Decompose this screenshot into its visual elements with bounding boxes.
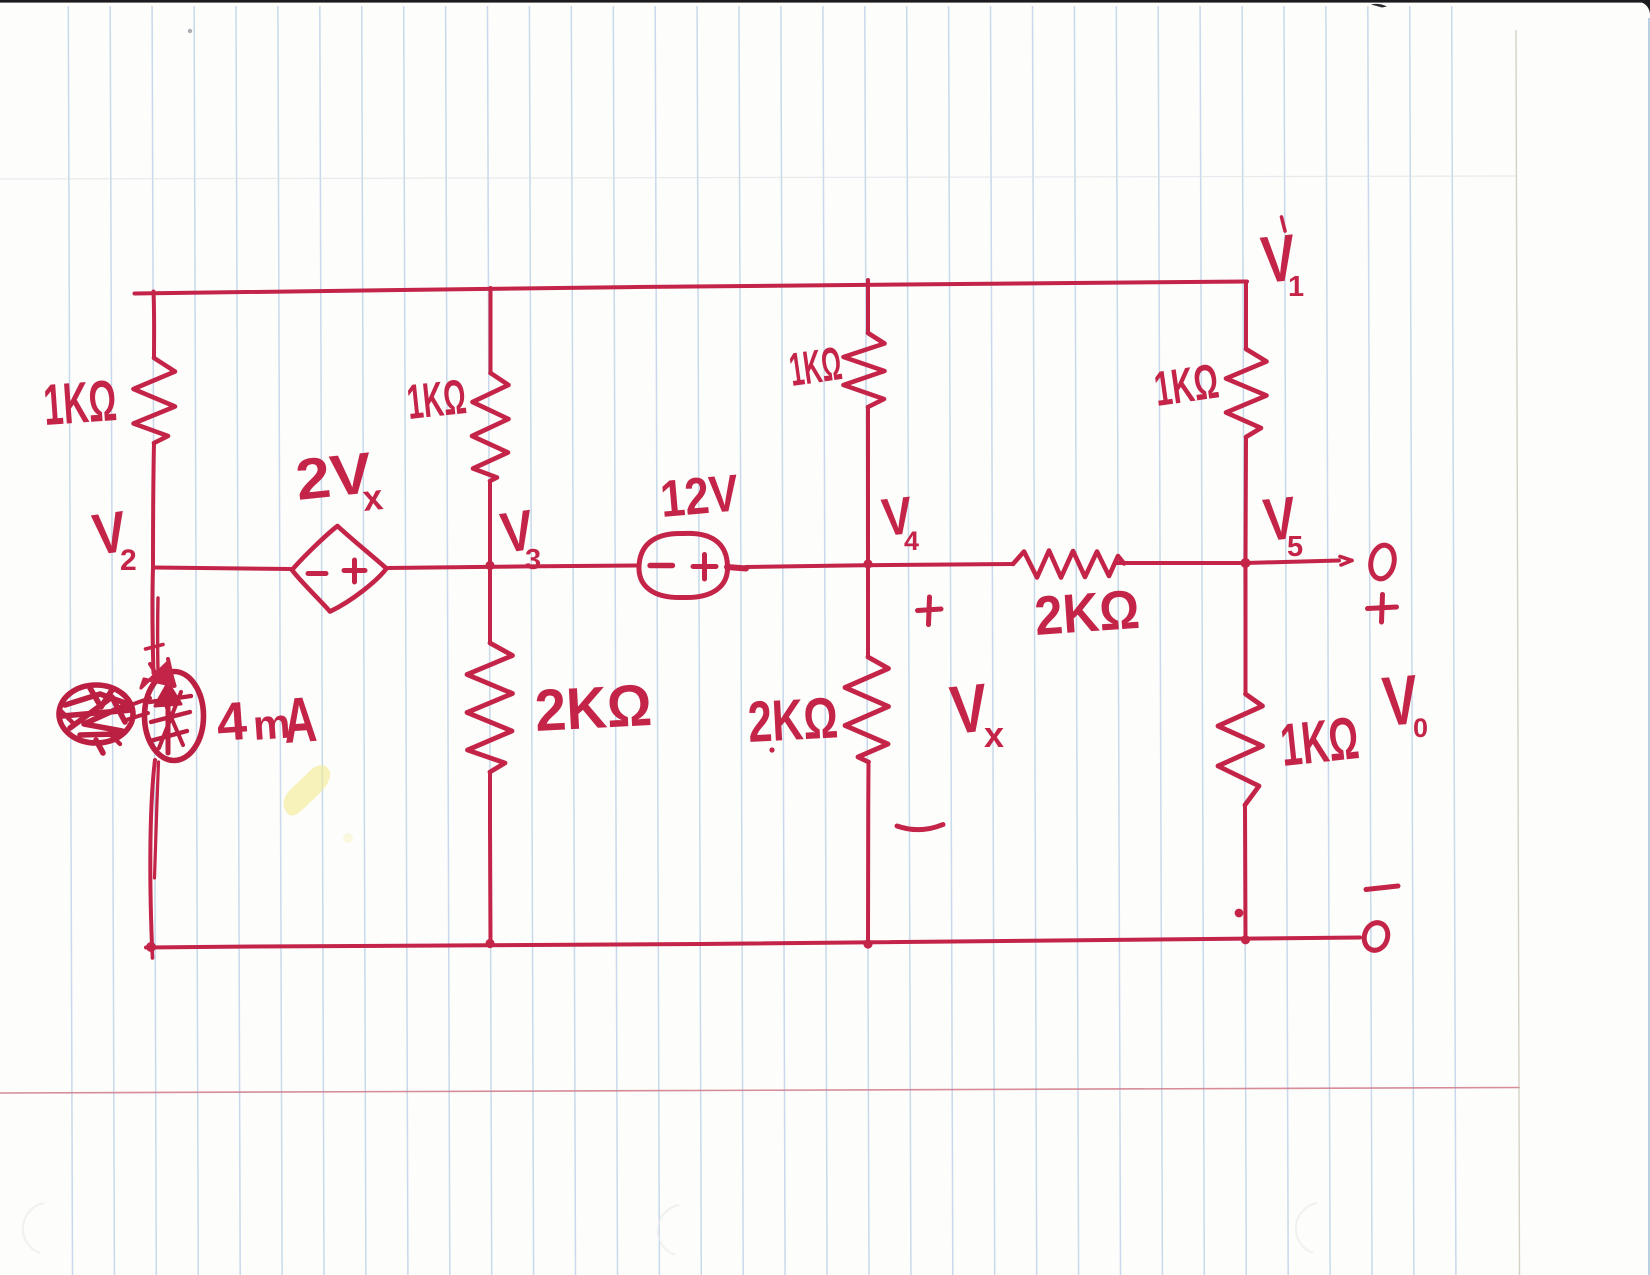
wire E1 to node V3 to source VS bbox=[387, 566, 639, 569]
pink margin line near bottom bbox=[0, 1088, 1520, 1094]
top scan edge bbox=[0, 0, 1650, 3]
wire R2 through node V3 to R3 bbox=[488, 481, 492, 643]
wire VS through node V4 to R8 bbox=[746, 564, 1013, 567]
resistor R6 1kΩ (V5 branch upper) bbox=[1226, 349, 1267, 437]
junction V4 branch at bottom rail bbox=[865, 941, 870, 946]
black pen tick top bbox=[1371, 4, 1387, 8]
wire top rail to R6 (node V5 branch) bbox=[1244, 282, 1248, 350]
resistor R1 1kΩ (left branch) bbox=[134, 358, 176, 443]
scratched-out symbol (crossed-out source attempt) bbox=[59, 685, 150, 753]
minus polarity mark of Vx (below R5) bbox=[897, 825, 943, 830]
wire top rail to R2 (node V3 branch) bbox=[489, 288, 493, 373]
resistor R5 2kΩ (V4 branch lower, Vx across it) bbox=[845, 657, 889, 762]
wire left branch upper (top rail to R1) bbox=[152, 292, 157, 359]
svg-text:2: 2 bbox=[120, 544, 137, 577]
svg-text:1KΩ: 1KΩ bbox=[786, 336, 845, 396]
junction node V3 on middle wire bbox=[487, 563, 492, 568]
wire R1 to node V2 bbox=[153, 443, 154, 567]
output terminal (bottom, open circle) bbox=[1361, 920, 1392, 954]
scanner right edge strip bbox=[1648, 18, 1650, 1275]
wire R8 to node V5 bbox=[1116, 561, 1246, 565]
plus polarity mark inside VS bbox=[693, 555, 716, 580]
stray ink dot near V5 bottom bbox=[1237, 911, 1242, 916]
svg-text:0: 0 bbox=[1413, 713, 1428, 743]
junction V3 branch at bottom rail bbox=[487, 941, 492, 946]
resistor R3 2kΩ (V3 branch lower) bbox=[467, 643, 513, 772]
svg-text:x: x bbox=[361, 476, 385, 519]
wire bottom rail (ground net) bbox=[146, 938, 1360, 948]
wire node V5 to output terminal bbox=[1246, 561, 1340, 564]
svg-text:1KΩ: 1KΩ bbox=[41, 368, 118, 438]
wire node V5 to R7 bbox=[1244, 563, 1248, 694]
svg-text:12V: 12V bbox=[658, 464, 741, 529]
svg-text:x: x bbox=[984, 714, 1004, 755]
wire top rail (node V1 net) bbox=[135, 282, 1248, 294]
svg-text:2KΩ: 2KΩ bbox=[533, 672, 653, 744]
svg-text:3: 3 bbox=[525, 544, 541, 576]
output terminal (top, open circle) bbox=[1368, 543, 1398, 581]
wire current source I1 to bottom rail (double stroked) bbox=[150, 760, 158, 958]
svg-text:1: 1 bbox=[1288, 271, 1304, 303]
plus polarity mark of Vx (above R5) bbox=[918, 597, 942, 625]
wire node V2 to dependent source E1 bbox=[153, 568, 291, 570]
resistor R4 1kΩ (V4 branch upper) bbox=[844, 333, 885, 407]
yellow highlighter smudge bbox=[283, 765, 353, 843]
arrowhead at output wire end bbox=[1340, 557, 1352, 566]
plus polarity mark of V0 (below top terminal) bbox=[1368, 595, 1397, 623]
svg-text:4: 4 bbox=[215, 691, 249, 753]
resistor R7 1kΩ (V5 branch lower) bbox=[1218, 694, 1263, 805]
svg-text:4: 4 bbox=[904, 526, 919, 556]
wire R5 to bottom rail bbox=[866, 762, 871, 945]
wire node V4 to R5 bbox=[866, 564, 870, 657]
wire top rail to R4 (node V4 branch) bbox=[866, 280, 870, 333]
svg-text:1KΩ: 1KΩ bbox=[1151, 355, 1222, 417]
junction node V4 on middle wire bbox=[865, 561, 870, 566]
wire R7 to bottom rail bbox=[1243, 805, 1248, 940]
punch hole arcs bbox=[23, 1203, 1317, 1255]
minus polarity mark inside VS bbox=[650, 563, 673, 568]
plus polarity mark inside E1 bbox=[344, 560, 365, 582]
dependent source E1 2Vx (diamond) bbox=[292, 526, 387, 612]
wire R4 to node V4 bbox=[866, 407, 870, 564]
wire R6 to node V5 bbox=[1244, 437, 1249, 563]
ink blob at VS right terminal bbox=[727, 567, 746, 569]
svg-text:A: A bbox=[281, 683, 319, 757]
current source I1 4mA (circle with up arrow, overdrawn) bbox=[145, 672, 204, 761]
junction node V5 on middle wire bbox=[1243, 560, 1249, 566]
svg-text:1KΩ: 1KΩ bbox=[405, 370, 469, 430]
svg-text:2KΩ: 2KΩ bbox=[1033, 578, 1142, 647]
minus polarity mark inside E1 bbox=[308, 571, 326, 576]
junction V5 branch at bottom rail bbox=[1243, 937, 1248, 942]
wire R3 to bottom rail bbox=[488, 772, 493, 944]
faint horizontal rule near top bbox=[0, 176, 1516, 179]
paper right edge bbox=[1516, 30, 1520, 1275]
grey speck bbox=[188, 29, 192, 33]
wire node V2 down to current source I1 (double stroked) bbox=[146, 567, 164, 673]
svg-text:5: 5 bbox=[1287, 531, 1303, 563]
ink blotch above current source I1 bbox=[141, 659, 175, 688]
minus polarity mark of V0 (above bottom terminal) bbox=[1366, 886, 1398, 890]
svg-text:1KΩ: 1KΩ bbox=[1277, 704, 1362, 779]
svg-text:2KΩ: 2KΩ bbox=[746, 685, 839, 755]
junction blob bottom-left corner bbox=[147, 943, 155, 951]
resistor R2 1kΩ (V3 branch upper) bbox=[472, 373, 509, 481]
pen tick above node V1 label bbox=[1282, 217, 1286, 231]
voltage source VS 12V (oval) bbox=[639, 533, 728, 597]
resistor R8 2kΩ (series horizontal) bbox=[1013, 551, 1124, 578]
